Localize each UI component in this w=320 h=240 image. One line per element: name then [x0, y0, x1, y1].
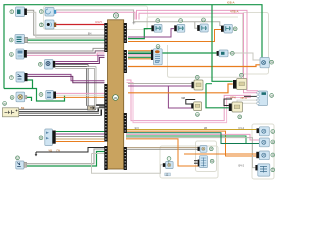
wire pink4 from block top to right unit — [139, 13, 258, 93]
svg-text:ВК: ВК — [21, 106, 25, 110]
wire green from lamp K11 up to block — [27, 152, 105, 167]
wire orange into P2 — [126, 139, 200, 166]
wire orange bottom band to lamp R3 — [126, 131, 257, 156]
wire staircase purple1 from motor K6 — [55, 55, 104, 61]
wire pink from connector K9 — [55, 92, 104, 94]
wire purple branch down to clock 7 — [168, 86, 191, 108]
circle A — [156, 19, 160, 23]
wire pink to lamp R2 — [126, 134, 259, 140]
wire white from connector K9 — [55, 94, 104, 96]
wire gray pair from connector K1 — [27, 10, 105, 35]
svg-text:ЧВ: ЧВ — [49, 148, 53, 152]
component K10 relay block — [45, 129, 56, 146]
circle 2 — [39, 10, 43, 14]
small box E — [217, 50, 228, 57]
circle f1 — [240, 73, 244, 77]
component K7 switch — [16, 72, 28, 82]
ground wire with body point — [36, 148, 105, 153]
svg-text:ЧПБ-А: ЧПБ-А — [230, 9, 239, 13]
circle D — [233, 27, 237, 31]
unit R4 — [255, 164, 269, 176]
wire purple from block to heater 8 — [128, 85, 192, 87]
circle R4 — [271, 168, 275, 172]
component K9 connector — [46, 91, 56, 100]
wire gray from lamp K2 over block to connector C and D — [56, 10, 221, 26]
label red near block — [96, 22, 102, 24]
circle B — [179, 19, 183, 23]
circle 10a — [39, 136, 43, 140]
block circle label top — [113, 13, 118, 18]
wire black loop at clock 7 — [186, 100, 195, 105]
label above yellow wire right — [238, 127, 245, 129]
circle 7 — [10, 76, 14, 80]
component K2 lamp — [45, 8, 56, 17]
wire purple pair from switch K7 — [28, 74, 105, 80]
block right connector strip segment 2 — [124, 50, 127, 73]
wire staircase gray from K5 — [27, 48, 105, 51]
right unit multi-pin — [257, 91, 268, 106]
block right connector strip segment 1 — [124, 23, 127, 43]
harness group outline G3 — [252, 124, 274, 179]
wire bundle from relay K10 to block — [56, 131, 105, 133]
circle 3 — [39, 23, 43, 27]
battery — [2, 108, 18, 117]
headlamp A — [151, 24, 162, 32]
wire gray tube from K6 down to plug X1 — [55, 68, 95, 106]
wire green from block to headlamp A — [128, 29, 151, 39]
wire orange from connector K9 — [55, 96, 104, 98]
svg-text:ОР-А: ОР-А — [241, 96, 248, 100]
wire orange2 bottom to lamp R3 — [184, 153, 257, 155]
harness group outline G1 — [147, 17, 238, 30]
wire black stub into right unit pin2 — [244, 95, 258, 97]
wire staircase pink from K5 — [27, 53, 105, 55]
combination switch 6 — [151, 49, 162, 65]
wire white from K4 — [28, 38, 105, 40]
circle 11a — [16, 156, 20, 160]
wire pink3 from block top to right unit — [137, 10, 259, 90]
svg-text:БЧ: БЧ — [88, 31, 92, 35]
svg-text:ОРН: ОРН — [230, 96, 236, 100]
circle 8a — [10, 96, 14, 100]
wire white to unit R4 — [126, 138, 257, 168]
wire green to lamp R2 pin2 — [126, 136, 246, 144]
circle 4 — [9, 38, 13, 42]
wire orange long to lamp 9 — [128, 65, 260, 67]
component K4 radio connector — [15, 35, 28, 44]
wire orange2 from block to fuse box — [128, 84, 233, 93]
plug X1 with arrow — [88, 106, 96, 110]
fuse box 2 — [229, 102, 243, 112]
wire white L into right unit pin3 — [237, 100, 258, 107]
wire gray from small box E to lamp 9 — [228, 53, 260, 60]
component K8 ignition switch — [16, 92, 27, 102]
plus mark near block — [132, 21, 135, 24]
wire staircase purple from K5 — [27, 51, 105, 53]
lamp R1 — [257, 127, 270, 136]
wire green stub from ignition K8 — [27, 97, 32, 101]
lamp 9 right top — [260, 58, 269, 68]
battery negative cable — [19, 108, 105, 114]
circle P2 — [210, 159, 214, 163]
svg-text:ЖЧ: ЖЧ — [135, 126, 139, 130]
harness group outline G2 — [196, 141, 217, 172]
wire green branch to connector K9 — [4, 89, 65, 102]
block left connector strip segment 2 — [104, 84, 107, 142]
circle P3 — [167, 157, 171, 161]
wire gray from block to heater 8 — [128, 83, 192, 85]
svg-text:КЧ-П: КЧ-П — [96, 20, 102, 24]
component K5 — [16, 49, 27, 59]
circle 9a — [39, 93, 43, 97]
circle P1 — [209, 147, 213, 151]
component K3 horn — [45, 20, 56, 29]
lamp D — [221, 24, 232, 33]
component K1 interior lamp — [16, 7, 27, 17]
circle 1 — [10, 10, 14, 14]
wire black tube from K6 down to plug X1 — [55, 66, 87, 106]
harness group outline G4 — [160, 146, 218, 178]
block right connector strip segment 3 — [124, 113, 127, 133]
wire gray from block to sensor P3 — [92, 154, 163, 174]
block left connector strip segment 1 — [104, 23, 107, 52]
circle R1 — [271, 130, 275, 134]
wire white L into right unit pin4 — [240, 103, 258, 107]
lamp R2 — [259, 138, 269, 147]
circle R3 — [271, 153, 275, 157]
wire gray-green from K4 — [28, 42, 105, 44]
component K6 motor — [45, 60, 56, 70]
heater control 8 — [192, 80, 204, 90]
circle C — [202, 18, 206, 22]
wire orange from block to lamp D — [128, 30, 221, 42]
strip pin marks — [105, 25, 126, 169]
wire yellow to lamp R1 — [126, 129, 256, 131]
headlamp C — [197, 24, 208, 32]
wire bundle from block to combination switch 6 — [128, 50, 151, 52]
headlamp B — [174, 24, 185, 32]
circle 6a — [38, 62, 42, 66]
battery positive cable — [19, 106, 105, 111]
wire green B to lamp R2 pin1 — [126, 133, 259, 144]
unit P1 — [198, 146, 208, 153]
wire green vertical to fuse box 1 — [212, 5, 233, 82]
wire ground-green perimeter: left vertical and top run to lamp 9 — [4, 5, 262, 89]
circle 6 — [156, 45, 160, 49]
wire black stubs from unit P2 — [194, 160, 198, 162]
svg-text:ЧМ: ЧМ — [181, 96, 185, 100]
fuse box 1 — [233, 79, 247, 90]
circle R2 — [271, 140, 275, 144]
svg-text:30: 30 — [114, 96, 118, 100]
svg-text:ПЧ: ПЧ — [57, 148, 61, 152]
svg-text:КЧ-2: КЧ-2 — [239, 126, 245, 130]
circle E — [230, 51, 234, 55]
wire green from K4 — [28, 39, 105, 41]
circle 5 — [10, 53, 14, 57]
wire green stub from switch K7 — [28, 80, 33, 89]
svg-text:ЮБ-А: ЮБ-А — [227, 0, 235, 4]
circle unit — [270, 94, 274, 98]
wire pink from lamp K2 into block top — [56, 12, 135, 19]
block right connector strip segment 4 — [124, 147, 127, 170]
wire green from switch 6 to small box E — [162, 52, 217, 54]
harness group outline G5 — [44, 6, 148, 30]
circle 8 — [195, 75, 199, 79]
block circle label middle — [113, 95, 119, 101]
clock 7 — [191, 102, 201, 111]
unit P2 multi-pin — [198, 156, 208, 168]
wire green vertical to fuse box 2 — [206, 84, 229, 108]
circle battery label — [3, 102, 7, 106]
svg-text:30: 30 — [114, 14, 118, 18]
circle 9 — [270, 60, 274, 64]
wire pink pair from block right around bottom to right unit — [127, 80, 252, 121]
wire staircase purple2 from motor K6 — [55, 57, 104, 63]
wire tan and gray to unit P1 — [127, 147, 198, 149]
wire red from horn K3 — [56, 24, 105, 26]
wire purple from block to headlamp B — [128, 29, 174, 37]
mounting block body — [108, 20, 124, 169]
block left connector strip segment 3 — [104, 146, 107, 170]
circle f2 — [238, 115, 242, 119]
component K11 lamp — [16, 161, 27, 169]
wire black loop at fuse box 2 — [224, 99, 232, 106]
sensor P3 — [163, 162, 173, 169]
svg-text:БЧ-2: БЧ-2 — [239, 164, 245, 168]
circle 7c — [196, 113, 200, 117]
svg-text:КБ: КБ — [204, 126, 208, 130]
lamp R3 — [256, 151, 269, 160]
wire gray from lamp K11 up to block — [27, 149, 105, 164]
